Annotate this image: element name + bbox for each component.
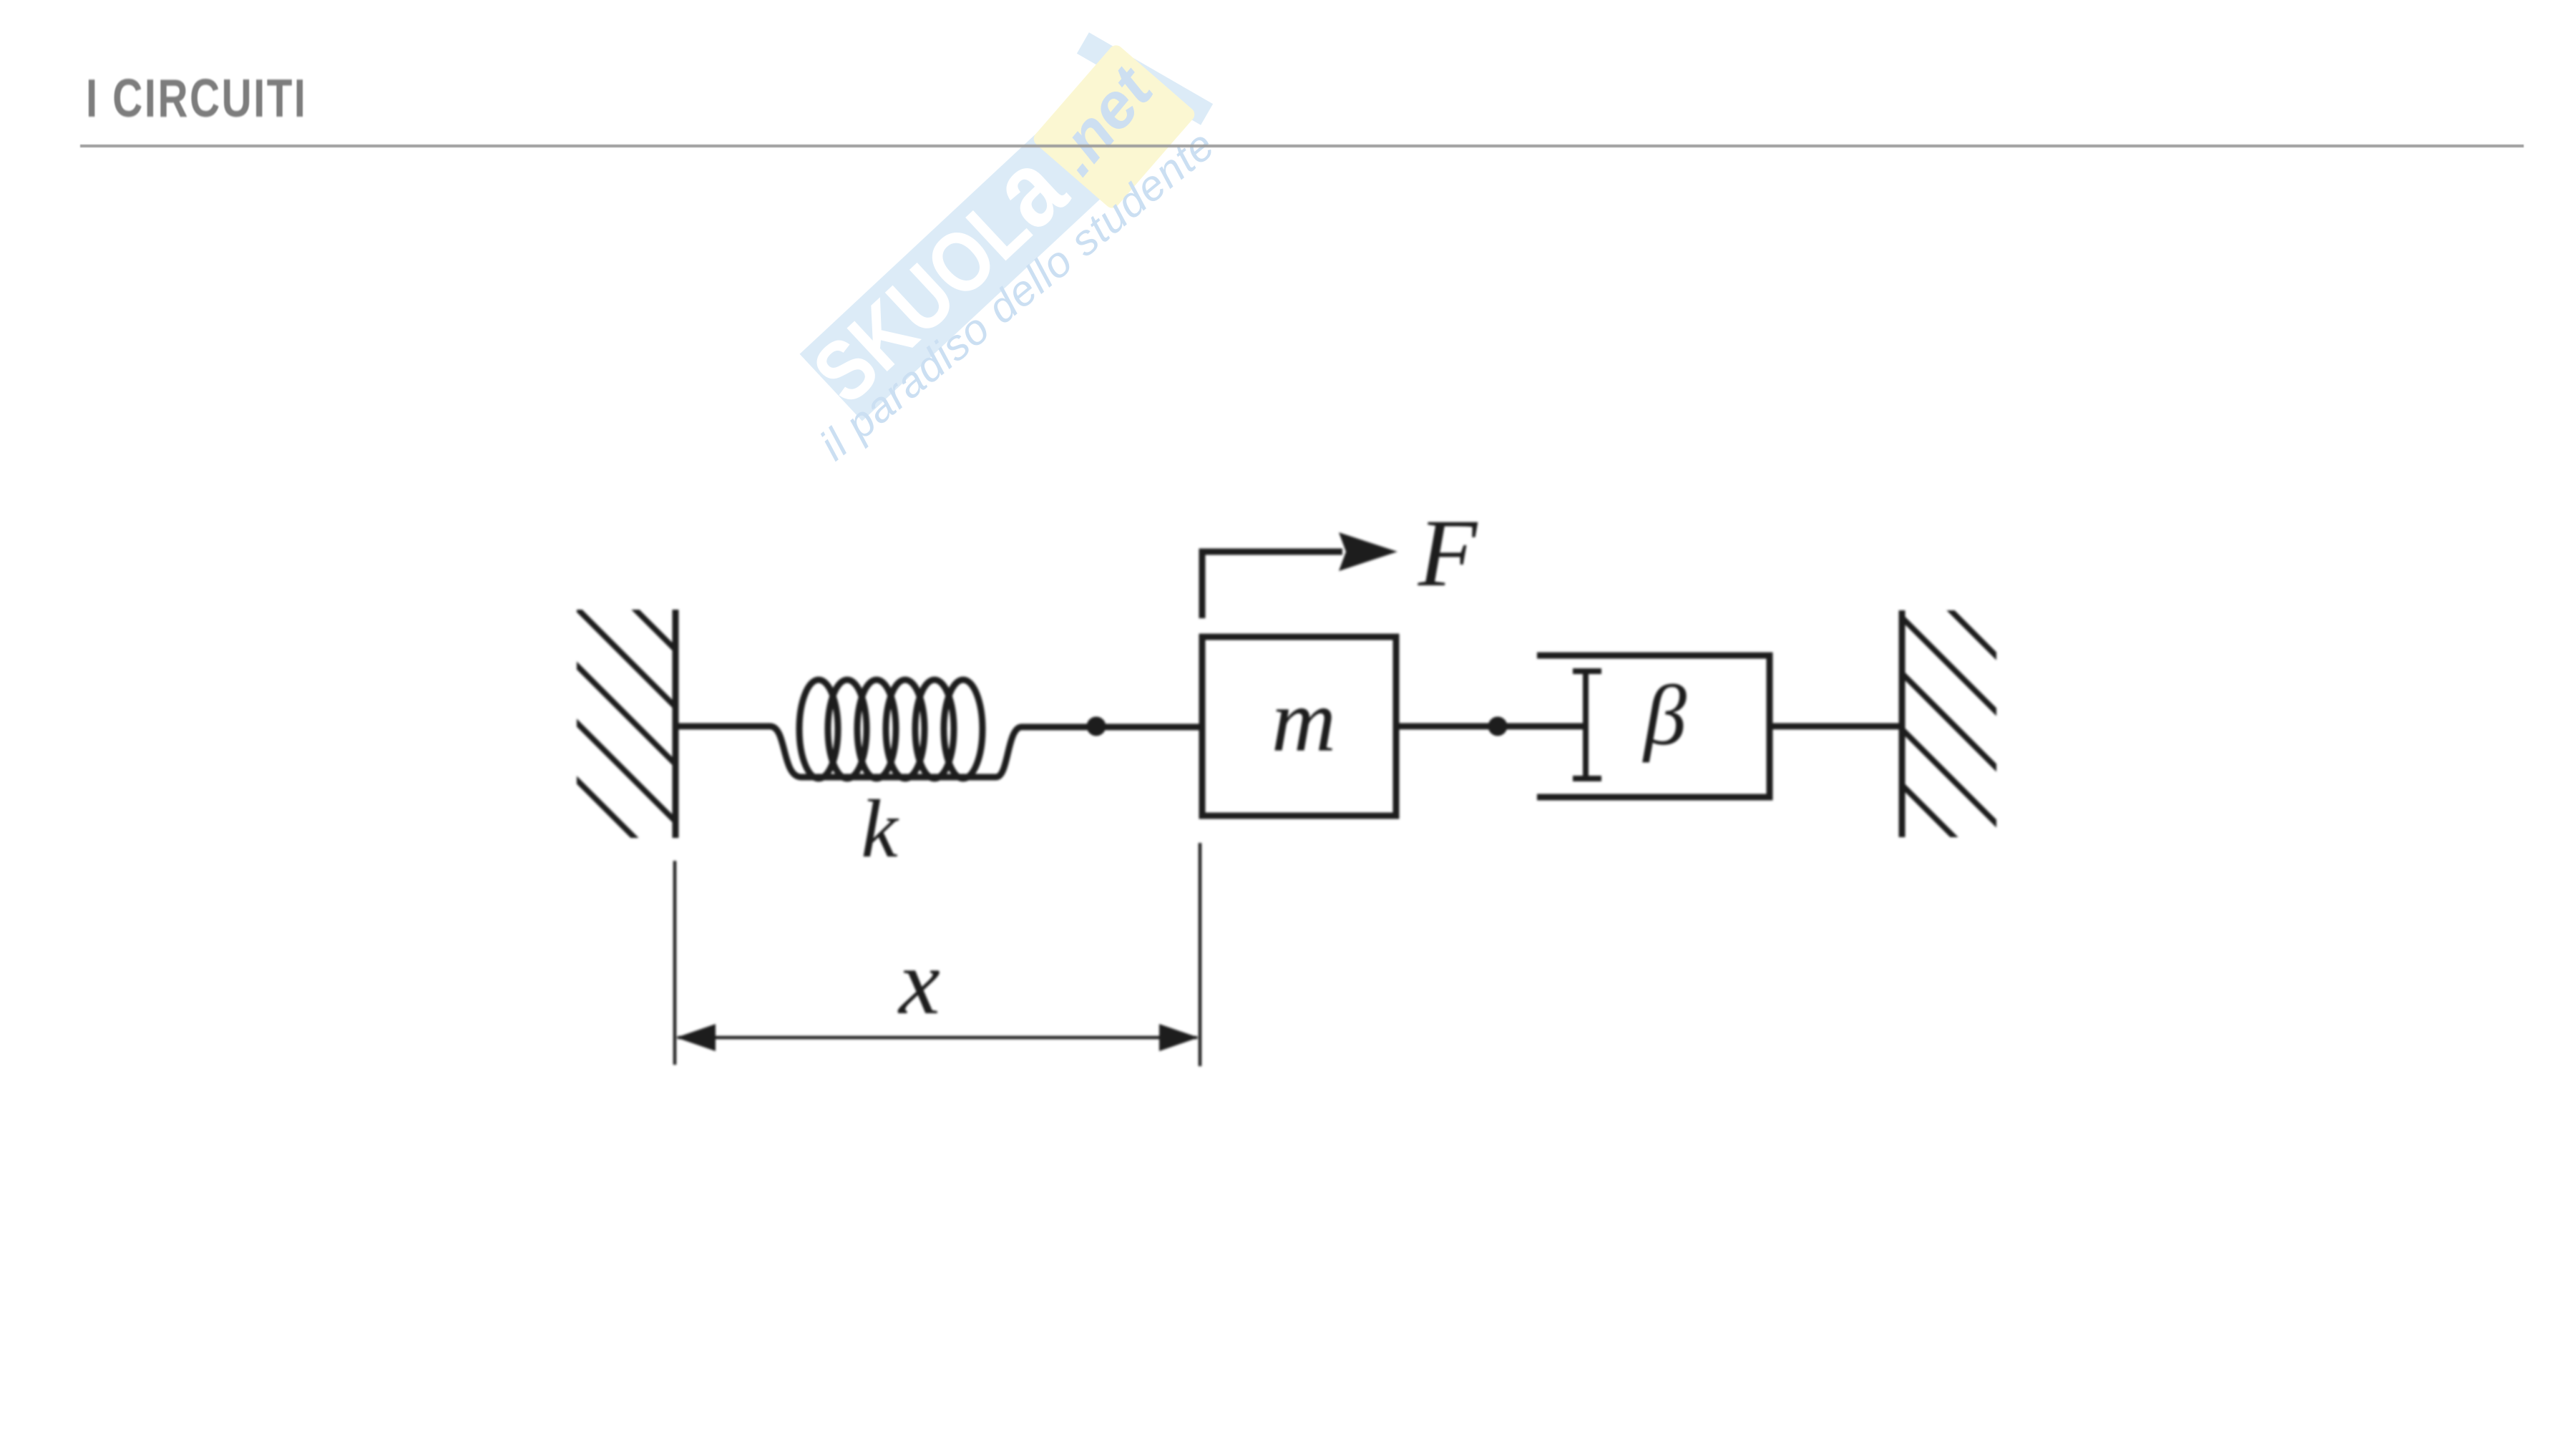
svg-text:x: x xyxy=(897,931,940,1034)
watermark yellow note xyxy=(1031,42,1198,211)
svg-text:F: F xyxy=(1418,500,1478,607)
dimension arrowhead right xyxy=(1159,1024,1199,1051)
force arrow F xyxy=(1202,532,1397,618)
watermark top-right blue stripe xyxy=(1077,32,1213,125)
page title xyxy=(86,67,307,129)
right wall xyxy=(1902,562,2016,899)
wire wall to spring xyxy=(675,723,770,730)
wire damper to wall xyxy=(1770,723,1902,730)
svg-text:k: k xyxy=(861,784,899,875)
damper beta cylinder xyxy=(1537,655,1770,797)
dimension x extension lines xyxy=(675,843,1200,1066)
damper beta piston xyxy=(1573,671,1601,779)
left wall xyxy=(561,535,675,879)
wire mass to damper xyxy=(1396,723,1586,730)
svg-text:β: β xyxy=(1642,668,1687,763)
mass m box xyxy=(1202,637,1396,816)
spring k coil xyxy=(770,680,1022,779)
wire spring to mass xyxy=(1022,724,1202,731)
node A junction dot xyxy=(1087,717,1106,736)
header rule xyxy=(80,145,2524,147)
dimension x line xyxy=(678,1036,1197,1040)
node B junction dot xyxy=(1488,717,1508,736)
svg-text:m: m xyxy=(1272,672,1336,771)
dimension arrowhead left xyxy=(676,1024,716,1051)
watermark blue band xyxy=(800,92,1143,421)
